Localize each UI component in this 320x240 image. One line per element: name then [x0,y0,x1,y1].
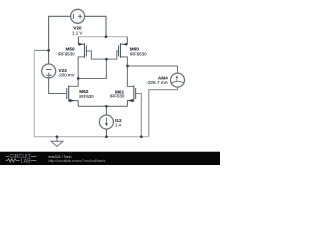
wire: NMOS common source rail [78,105,127,107]
wire: left rail down to bottom rail [33,50,35,136]
voltage source V23 [42,64,56,78]
ground symbol [51,137,63,147]
junction: M61 gate on bottom rail [140,135,143,138]
wire: AM4 feed from M60 drain [128,66,178,73]
wire: V20 negative lead left then down to GND junction [49,16,71,50]
wire: V23 bottom lead down then right to M62 gate [49,78,67,94]
wire: M60 source lead from rail [120,37,127,45]
svg-text:-226.7 mA: -226.7 mA [146,80,168,85]
svg-text:IRF9530: IRF9530 [58,51,76,56]
voltage source V20 [71,9,85,23]
junction: PMOS gate bus tap [105,58,108,61]
svg-text:IRF9530: IRF9530 [130,51,148,56]
wire: M59 source lead from rail [78,37,84,45]
svg-text:1.1 V: 1.1 V [72,30,82,35]
wire: AM4 return down-left-down to bottom rail [149,87,178,137]
wire: V20 positive lead right then down to top rail [85,16,106,36]
watermark CircuitLab logo [6,154,37,164]
wire: M59 drain down to M62 drain [69,57,84,87]
wire: M62 source lead down to common source rail [69,101,79,107]
wire: GND junction arm to left rail [34,49,48,51]
watermark bar [0,152,220,165]
junction: ground stub on bottom rail [56,135,59,138]
junction: M59 drain / gate node [77,77,80,80]
wire: bottom ground rail [34,136,149,138]
wire: I12 top lead [105,106,107,115]
wire: top supply rail [78,36,127,38]
transistor M60 PMOS (leads right) [118,43,127,58]
wire: M60 drain down to M61 drain [120,57,133,87]
wire: M61 gate right then down to bottom rail [136,94,142,137]
ammeter AM4 [171,73,185,87]
junction: GND node V20/V23/left rail [47,49,50,52]
wire: gate node drop and tie to M59 drain (diode connection) [78,59,106,78]
wire: I12 bottom lead [105,129,107,137]
svg-text:http://circuitlab.com/c/7xru4c: http://circuitlab.com/c/7xru4cu8/tanh/ [49,159,106,163]
current source I12 [99,115,113,129]
svg-text:IRF530: IRF530 [79,94,94,99]
junction: V20 positive at top rail [105,35,108,38]
transistor M62 NMOS (leads right, gate left) [66,86,74,103]
transistor M61 NMOS (mirrored, leads left, gate right) [128,86,136,103]
svg-text:-200 mV: -200 mV [58,73,75,78]
junction: I12 bottom on bottom rail [105,135,108,138]
transistor M59 PMOS (mirrored, leads left) [79,43,87,58]
svg-text:1 A: 1 A [115,123,121,128]
wire: PMOS gate bus M59 to M60 [86,51,118,59]
wire: V23 top lead [48,50,50,64]
svg-text:IRF530: IRF530 [110,94,125,99]
svg-text:LAB: LAB [21,158,31,164]
wire: M61 source lead down to common source rail [127,101,133,107]
junction: common source rail / I12 top [105,105,108,108]
junction: M60 drain / AM4 feed [126,65,129,68]
